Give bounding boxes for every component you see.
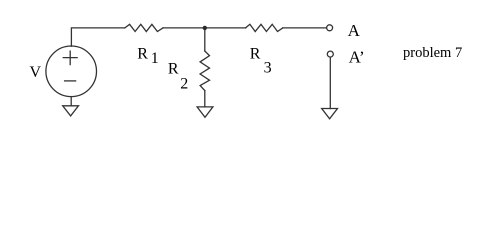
ground below V source [63,106,79,116]
svg-text:2: 2 [180,76,188,93]
svg-text:R: R [250,45,261,62]
resistor R2 [200,51,209,91]
ground below A' [322,109,338,119]
node junction dot [203,26,207,30]
terminal A' open circle [327,51,333,57]
resistor R1 [125,24,163,31]
resistor R3 [246,24,283,31]
voltage source V circle [46,46,97,97]
wire R3 to terminal A [283,27,326,29]
wire node to R2 [204,28,206,51]
terminal A open circle [327,25,333,31]
wire R1 to R3 through node [163,27,246,29]
wire top-left: V source top to R1 [71,28,124,46]
svg-text:A’: A’ [349,48,365,67]
svg-text:V: V [30,64,42,81]
svg-text:1: 1 [151,50,159,67]
plus sign inside source [63,51,77,64]
svg-text:R: R [137,45,148,62]
wire R2 to ground [204,91,206,107]
svg-text:A: A [348,21,361,40]
svg-text:problem 7: problem 7 [403,45,462,61]
minus sign inside source [65,80,76,82]
svg-text:R: R [168,61,179,78]
wire A' to ground [329,57,331,108]
wire V source bottom to ground [70,97,72,106]
ground below R2 [197,107,213,117]
svg-text:3: 3 [264,60,272,77]
